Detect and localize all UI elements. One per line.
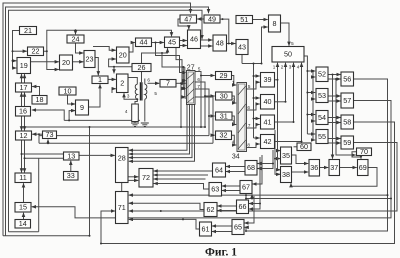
block 8 [269, 15, 281, 32]
svg-text:62: 62 [207, 205, 215, 214]
wire 59 to 71 feedback [129, 143, 397, 212]
wire 29 to 34 pin1 [232, 76, 237, 86]
block 42 [261, 135, 275, 149]
block 61 [200, 222, 212, 236]
block 63 [209, 183, 222, 197]
wire riser into 8 [262, 27, 268, 64]
svg-text:34: 34 [232, 154, 240, 161]
block 31 [216, 111, 233, 120]
wire arrow into 39 [254, 75, 260, 77]
wire 27 pin8 riser to 32 [195, 97, 213, 143]
wire 21 to 22 and 19 [13, 31, 20, 69]
wire branch 7 line down to bus B [180, 83, 182, 127]
block 26 [132, 63, 151, 72]
wire 27 pin6 riser to 30 [195, 82, 205, 128]
wire 16-12 bus a [21, 116, 23, 130]
svg-text:5: 5 [198, 67, 201, 72]
wire 35 to 36 [292, 155, 309, 164]
wire 52 to 56 b [328, 78, 341, 80]
svg-text:22: 22 [32, 47, 40, 56]
svg-text:15: 15 [19, 203, 27, 212]
wire 73 branch down [38, 134, 40, 143]
wire 34 pin6 to 40 [247, 104, 260, 110]
svg-text:2: 2 [232, 98, 235, 103]
wire arrow 53a [307, 92, 315, 94]
block 40 [261, 95, 275, 110]
wire line3 up to 50 [293, 63, 295, 122]
wire 45 to 46 a [180, 40, 187, 42]
svg-text:6: 6 [147, 78, 150, 83]
wire 52 to 56 a [328, 74, 341, 76]
wire 65 to 61 a [212, 225, 232, 227]
wire arrow into 40 [254, 97, 260, 99]
svg-text:17: 17 [20, 83, 28, 92]
wire 46 to 48 a [201, 39, 213, 41]
wire 49 right down [220, 19, 229, 43]
wire riser to 37 [332, 75, 334, 159]
svg-text:1: 1 [273, 65, 276, 70]
wire 2 to primary top [128, 78, 137, 85]
wire arrow 53b [313, 98, 315, 100]
wire 30 to 34 pin2 [232, 96, 236, 103]
svg-text:4: 4 [183, 95, 186, 100]
svg-text:58: 58 [343, 117, 351, 126]
wire frame right vertical [38, 158, 40, 232]
block 20 [60, 55, 73, 70]
wire into 68 b [257, 164, 273, 169]
wire riser to 39-42 inputs [253, 64, 255, 139]
wire secondary top [144, 79, 146, 85]
svg-text:27: 27 [187, 64, 195, 71]
block 2 [117, 74, 129, 93]
wire into 2 b [112, 89, 116, 93]
wire into 66 b [249, 204, 260, 210]
svg-text:73: 73 [46, 130, 54, 139]
wire 45 bottom to 27 pin2 [176, 48, 186, 81]
wire 14 to 15 [23, 213, 25, 220]
wire 18 to 17 [32, 87, 39, 96]
wire 67 to 63 b [222, 190, 240, 192]
svg-text:69: 69 [359, 163, 367, 172]
wire 57 to 15 feedback [32, 101, 391, 218]
wire riser to 70 [336, 79, 356, 155]
wire 54 to 58 b [328, 122, 341, 124]
block 71 [116, 192, 129, 224]
svg-text:28: 28 [118, 154, 126, 163]
wire branch to 67 bottom [251, 194, 253, 198]
wire 34 pin8 to 42 [247, 144, 260, 148]
svg-text:5: 5 [154, 91, 157, 96]
wire arrow into 42 [254, 137, 260, 139]
wire line2 up to 50 [285, 63, 287, 102]
block 1 [92, 75, 108, 84]
block 58 [341, 115, 354, 129]
wire 45 to 46 b [180, 45, 187, 47]
wire 15 to 11 [23, 183, 25, 202]
svg-text:1: 1 [98, 75, 102, 84]
wire 38 to 36 [292, 171, 309, 173]
svg-text:6: 6 [197, 77, 200, 82]
svg-text:7: 7 [166, 79, 170, 88]
svg-text:59: 59 [343, 138, 351, 147]
wire 62 to 71 [129, 203, 204, 209]
block 16 [16, 107, 31, 117]
wire 55 to 59 b [328, 142, 341, 144]
wire bus A branch to 9 [69, 111, 75, 121]
wire 28 to 72 b [128, 179, 138, 181]
svg-text:32: 32 [220, 131, 228, 140]
wire node to 7 [148, 82, 160, 84]
svg-text:7: 7 [197, 84, 200, 89]
wire 20b to 44 [130, 43, 135, 53]
block 28 [116, 148, 129, 183]
svg-text:43: 43 [238, 42, 246, 51]
wire bus B [25, 126, 206, 128]
svg-text:56: 56 [343, 74, 351, 83]
commutator switch 34 [232, 83, 247, 161]
svg-text:12: 12 [20, 131, 28, 140]
wire riser b to 52-55 [312, 71, 314, 140]
wire line1 up to 50 [277, 63, 279, 80]
svg-text:66: 66 [239, 202, 247, 211]
block 9 [76, 100, 89, 115]
svg-text:51: 51 [240, 15, 248, 24]
wire 13 left lines b [25, 157, 64, 159]
wire 50 right to 52-55 riser a [304, 56, 307, 134]
svg-text:26: 26 [138, 63, 146, 72]
block 66 [237, 200, 249, 214]
wire into 38 b [275, 159, 280, 175]
svg-text:47: 47 [184, 14, 192, 23]
svg-text:3: 3 [232, 119, 235, 124]
svg-text:20: 20 [62, 58, 70, 67]
block 56 [341, 72, 354, 86]
wire arrow into 31 [209, 115, 215, 117]
svg-text:5: 5 [291, 41, 294, 46]
wire 28 to 72 a [128, 176, 138, 178]
svg-text:16: 16 [19, 107, 27, 116]
svg-text:53: 53 [318, 91, 326, 100]
svg-text:36: 36 [310, 163, 318, 172]
wire 27 pin5 riser to 29 [195, 72, 201, 128]
block 46 [188, 30, 201, 49]
wire 64 to 72 [154, 170, 213, 172]
svg-text:45: 45 [168, 38, 176, 47]
wire feedback loop bottom riser [3, 127, 90, 236]
block 49 [204, 14, 220, 23]
svg-text:1: 1 [182, 70, 185, 75]
wire 13 left lines a [22, 153, 64, 155]
wire 23 to 1 [95, 58, 98, 76]
commutator switch 27 [187, 64, 196, 104]
wire 70 to 69 [352, 152, 361, 159]
svg-text:20: 20 [119, 50, 127, 59]
wire 31 to 34 pin3 [232, 116, 236, 125]
transformer primary winding 3 [135, 84, 137, 99]
block 68 [245, 161, 257, 176]
wire 32 to 34 pin4 [232, 135, 237, 145]
wire 27 out4 to 28 [129, 105, 195, 162]
block 22 [28, 47, 44, 56]
wire loop to 71 and 67 [129, 195, 391, 198]
svg-text:8: 8 [247, 142, 250, 147]
block 53 [316, 89, 328, 103]
svg-text:23: 23 [86, 54, 94, 63]
block 37 [329, 160, 340, 176]
wire 13 to 28 [79, 154, 115, 156]
svg-text:42: 42 [264, 137, 272, 146]
wire into 72 d [154, 178, 206, 180]
svg-text:55: 55 [318, 132, 326, 141]
svg-text:52: 52 [318, 70, 326, 79]
svg-text:40: 40 [264, 97, 272, 106]
svg-text:9: 9 [80, 103, 84, 112]
wire 55 to 59 a [328, 138, 341, 140]
block 54 [316, 111, 328, 125]
wire 12-11 bus b [24, 140, 26, 172]
wire bus E [242, 63, 262, 65]
wire to 27 pin4 [184, 67, 187, 97]
svg-text:21: 21 [24, 26, 32, 35]
svg-text:67: 67 [242, 182, 250, 191]
wire 17-19 bus b [24, 74, 26, 83]
wire arrow into 19 b [13, 67, 17, 69]
wire arrow into 32 [213, 134, 215, 136]
svg-text:2: 2 [281, 65, 284, 70]
svg-text:Фиг. 1: Фиг. 1 [205, 247, 237, 258]
wire primary to resistor 4 [135, 99, 137, 104]
wire 48 to 43 [227, 43, 236, 45]
svg-text:11: 11 [19, 173, 26, 182]
wire 42 out [275, 141, 302, 143]
block 59 [341, 136, 354, 149]
block 65 [232, 220, 244, 235]
svg-text:70: 70 [360, 147, 368, 156]
block 36 [309, 160, 320, 177]
block 14 [15, 219, 31, 228]
wire bus D to 73 [47, 140, 49, 144]
svg-text:19: 19 [20, 61, 28, 70]
wire 12-11 bus a [21, 140, 23, 172]
wire 66 to 62 a [218, 205, 237, 207]
svg-text:3: 3 [289, 65, 292, 70]
wire arrow 55b [313, 139, 315, 141]
wire 47 to 46 [178, 19, 189, 29]
wire 73 to 12 [32, 133, 42, 135]
wire 37 to 69 [340, 167, 357, 169]
wire 26 left to 20b b [109, 59, 132, 67]
wire arrow 52b [313, 76, 315, 78]
svg-text:64: 64 [215, 165, 223, 174]
svg-text:2: 2 [182, 78, 185, 83]
wire 27 out2 to 28 [129, 105, 190, 155]
wire 67 to 63 a [222, 185, 240, 187]
wire bus A to 16 [32, 110, 64, 120]
wire 16-12 bus b [24, 116, 26, 130]
svg-text:4: 4 [232, 140, 235, 145]
wire 63 to 72 [154, 184, 209, 190]
svg-text:13: 13 [67, 151, 75, 160]
svg-text:18: 18 [36, 95, 44, 104]
wire 28 to 71 [121, 183, 123, 192]
block 48 [213, 35, 227, 51]
block 39 [261, 73, 275, 88]
wire primary bottom to 2 [124, 93, 137, 99]
wire 60 stub [294, 146, 298, 148]
svg-text:38: 38 [282, 170, 290, 179]
wire branch down into 2 top [113, 67, 115, 74]
wire 7 to 27 [176, 82, 186, 84]
svg-text:39: 39 [264, 75, 272, 84]
wire 65 to 61 b [212, 231, 232, 233]
wire 26 to 45 [142, 48, 168, 63]
wire 34 pin7 to 41 [247, 125, 260, 129]
wire 40 out [275, 101, 286, 103]
block 64 [213, 163, 226, 177]
wire into 67 extra [252, 155, 262, 184]
svg-text:1: 1 [232, 80, 235, 85]
svg-text:33: 33 [67, 171, 75, 180]
block 32 [216, 131, 232, 140]
block 24 [67, 34, 84, 43]
wire 20 to 23 [73, 61, 84, 63]
block 12 [16, 131, 32, 140]
svg-text:4: 4 [297, 65, 300, 70]
wire arrow 52a [307, 70, 315, 72]
block 33 [64, 171, 79, 180]
wire into 24 top [75, 30, 77, 34]
wire 19 to 20 [31, 61, 59, 63]
svg-text:37: 37 [330, 163, 338, 172]
wire secondary to ground [144, 99, 146, 121]
svg-text:31: 31 [220, 111, 228, 120]
block 35 [281, 147, 292, 164]
svg-text:48: 48 [216, 38, 224, 47]
block 23 [84, 51, 95, 68]
wire into 68 a [257, 150, 273, 164]
block 73 [43, 130, 57, 139]
wire feedback loop inner top to 49 [6, 7, 209, 236]
resistor 4 [132, 104, 139, 122]
svg-text:6: 6 [247, 105, 250, 110]
svg-text:61: 61 [202, 224, 210, 233]
wire into 35 a [278, 80, 281, 151]
wire 43 bottom to bus E [241, 55, 243, 64]
wire 53 to 57 a [328, 95, 341, 97]
svg-text:63: 63 [211, 185, 219, 194]
ground under secondary winding [141, 123, 149, 127]
wire 22 branch to 20 [47, 51, 59, 69]
block 70 [357, 147, 372, 156]
block 21 [20, 26, 37, 35]
wire 1 to 2 [108, 78, 116, 80]
wire bus A [64, 119, 140, 121]
wire arrow 54a [307, 114, 315, 116]
wire 8 to 50 [281, 23, 290, 46]
wire 44 to 45 [152, 42, 164, 44]
block 15 [15, 203, 31, 213]
wire feedback loop outer top to 47 [3, 3, 191, 236]
block 60 [297, 142, 311, 151]
transformer core [140, 82, 142, 100]
block 18 [32, 95, 47, 104]
wire 66 to 62 b [218, 210, 237, 212]
wire 16-17 bus b [24, 93, 26, 107]
svg-text:49: 49 [208, 14, 216, 23]
svg-text:44: 44 [140, 38, 148, 47]
svg-text:35: 35 [282, 151, 290, 160]
block 7 [160, 79, 176, 88]
wire 195 extension to right loop [246, 194, 388, 196]
svg-text:5: 5 [248, 84, 251, 89]
svg-text:57: 57 [343, 96, 351, 105]
svg-text:68: 68 [247, 163, 255, 172]
block 10 [59, 86, 76, 95]
wire 16-17 bus a [21, 93, 23, 107]
block 29 [216, 71, 232, 80]
svg-text:72: 72 [142, 173, 150, 182]
wire bus30 from 22 to 45 top [44, 30, 172, 51]
svg-text:65: 65 [234, 222, 242, 231]
transformer secondary winding 5/6 [145, 84, 147, 99]
wire 27 out1 to 28 [129, 105, 187, 151]
svg-text:29: 29 [220, 71, 228, 80]
wire 56 to 65 feedback [245, 79, 388, 231]
block 41 [261, 115, 275, 129]
svg-text:54: 54 [318, 113, 326, 122]
svg-text:3: 3 [182, 86, 185, 91]
wire 34 pin5 to 39 [247, 82, 260, 89]
block 55 [316, 130, 328, 144]
wire bus top third [9, 10, 203, 232]
svg-text:7: 7 [248, 123, 251, 128]
wire 10 to 9 [68, 93, 76, 104]
wire 53 to 57 b [328, 100, 341, 102]
wire 9 to 1 [89, 84, 101, 107]
block 51 [236, 15, 253, 24]
wire into 66 a [249, 157, 260, 204]
wire 36 to 37 [320, 167, 329, 169]
block 38 [281, 167, 292, 183]
svg-text:10: 10 [64, 86, 72, 95]
wire into 35 b [275, 130, 280, 159]
svg-text:2: 2 [120, 79, 124, 88]
svg-text:46: 46 [190, 35, 198, 44]
wire arrow into 30 [205, 95, 215, 97]
block 69 [358, 160, 369, 176]
svg-text:4: 4 [125, 109, 128, 114]
wire 27 out3 to 28 [129, 105, 192, 158]
pin number labels [125, 41, 300, 148]
wire 58 to 71 feedback [101, 122, 395, 244]
svg-text:41: 41 [264, 117, 272, 126]
wire bus D [39, 142, 213, 144]
wire arrow into 22 [13, 50, 27, 52]
block 44 [136, 38, 152, 47]
wire arrow 54b [313, 120, 315, 122]
wire 54 to 58 a [328, 117, 341, 119]
wire 39 out [275, 79, 278, 81]
svg-text:30: 30 [220, 91, 228, 100]
block 72 [139, 169, 153, 188]
wire frame bottom [9, 231, 39, 233]
wire into 20b a [93, 47, 116, 51]
wire arrow into 29 [201, 75, 215, 77]
block 50 [272, 47, 304, 63]
wire 41 out [275, 121, 294, 123]
block 52 [316, 67, 328, 82]
wire line4 up to 50 [301, 63, 303, 142]
